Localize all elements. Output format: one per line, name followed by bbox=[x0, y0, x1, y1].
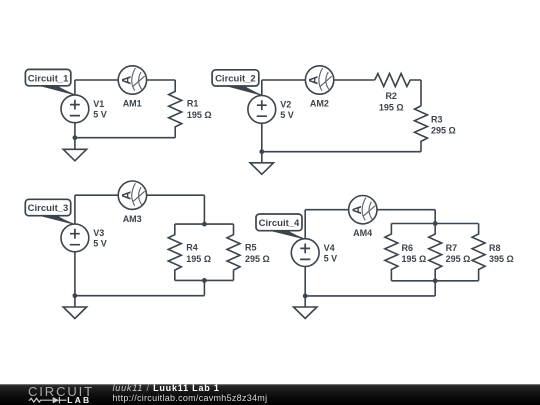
ammeter AM1 bbox=[118, 66, 146, 94]
wire circuit2 bottom bbox=[262, 151, 421, 153]
svg-text:5 V: 5 V bbox=[324, 253, 338, 263]
resistor R8 bbox=[472, 224, 485, 281]
voltage source V3 bbox=[61, 224, 89, 252]
wire circuit1 left vertical bbox=[74, 80, 76, 149]
resistor R6 bbox=[385, 224, 398, 281]
svg-text:V4: V4 bbox=[324, 243, 335, 253]
svg-text:295 Ω: 295 Ω bbox=[446, 254, 471, 264]
svg-text:295 Ω: 295 Ω bbox=[245, 254, 270, 264]
ammeter AM2 bbox=[305, 66, 333, 94]
svg-text:Circuit_3: Circuit_3 bbox=[28, 203, 69, 214]
wire circuit4 bar to bottom bbox=[434, 281, 436, 296]
svg-text:R4: R4 bbox=[186, 243, 198, 253]
resistor R5 bbox=[227, 224, 240, 280]
footer logo resistor-diode wire bbox=[29, 397, 67, 403]
svg-text:R5: R5 bbox=[245, 243, 257, 253]
svg-text:R2: R2 bbox=[385, 91, 397, 101]
svg-text:V1: V1 bbox=[93, 99, 104, 109]
wire circuit4 top bbox=[305, 209, 435, 211]
wire circuit3 bar to bottom bbox=[203, 280, 205, 295]
svg-text:AM1: AM1 bbox=[123, 99, 142, 109]
wire circuit2 top bbox=[262, 79, 375, 81]
ground circuit1 bbox=[63, 149, 86, 161]
footer logo diode triangle bbox=[53, 397, 60, 403]
wire circuit2 right vertical bbox=[420, 80, 422, 106]
svg-text:Circuit_2: Circuit_2 bbox=[215, 74, 256, 85]
svg-text:luuk11 / Luuk11 Lab 1: luuk11 / Luuk11 Lab 1 bbox=[113, 383, 220, 393]
label callout Circuit_3 bbox=[25, 199, 74, 224]
wire circuit4 top bar bbox=[391, 223, 478, 225]
junction dot circuit3 left bbox=[73, 293, 78, 298]
wire circuit3 bottom bbox=[75, 295, 205, 297]
svg-text:R7: R7 bbox=[446, 243, 458, 253]
svg-text:V3: V3 bbox=[93, 228, 104, 238]
junction dot circuit3 bottom bbox=[202, 278, 207, 283]
svg-text:395 Ω: 395 Ω bbox=[489, 254, 514, 264]
junction dot circuit4 top bbox=[433, 221, 438, 226]
svg-text:http://circuitlab.com/cavmh5z8: http://circuitlab.com/cavmh5z8z34mj bbox=[113, 393, 268, 403]
resistor R7 bbox=[429, 224, 442, 281]
voltage source V4 bbox=[291, 239, 319, 267]
svg-text:AM4: AM4 bbox=[353, 228, 372, 238]
wire circuit3 left vertical bbox=[74, 195, 76, 307]
ground circuit3 bbox=[63, 307, 86, 319]
junction dot circuit3 top bbox=[202, 222, 207, 227]
wire circuit1 bottom bbox=[75, 137, 175, 139]
junction dot circuit4 left bbox=[303, 294, 308, 299]
junction dot circuit2 bbox=[259, 149, 264, 154]
ammeter AM4 bbox=[349, 196, 377, 224]
ground circuit2 bbox=[250, 163, 273, 175]
svg-text:5 V: 5 V bbox=[93, 110, 107, 120]
svg-text:Circuit_4: Circuit_4 bbox=[259, 218, 300, 229]
svg-text:R8: R8 bbox=[489, 243, 501, 253]
resistor R1 bbox=[169, 80, 182, 138]
ammeter AM3 bbox=[118, 181, 146, 209]
svg-text:R1: R1 bbox=[187, 99, 199, 109]
wire circuit3 top bar bbox=[175, 223, 234, 225]
wire circuit1 top bbox=[75, 79, 175, 81]
voltage source V2 bbox=[248, 96, 276, 124]
wire circuit3 top bbox=[75, 194, 205, 196]
svg-text:195 Ω: 195 Ω bbox=[186, 254, 211, 264]
resistor R4 bbox=[168, 224, 181, 280]
svg-text:5 V: 5 V bbox=[93, 239, 107, 249]
resistor R2 bbox=[375, 74, 421, 87]
wire circuit4 drop to bar bbox=[434, 210, 436, 224]
wire circuit4 left vertical bbox=[304, 210, 306, 307]
svg-text:195 Ω: 195 Ω bbox=[187, 110, 212, 120]
footer bar bbox=[0, 384, 540, 405]
svg-text:5 V: 5 V bbox=[280, 110, 294, 120]
svg-text:AM2: AM2 bbox=[310, 99, 329, 109]
svg-text:AM3: AM3 bbox=[123, 214, 142, 224]
svg-text:R6: R6 bbox=[402, 243, 414, 253]
junction dot circuit1 bbox=[73, 135, 78, 140]
wire circuit4 bottom bbox=[305, 295, 435, 297]
label callout Circuit_2 bbox=[212, 70, 262, 95]
svg-text:Circuit_1: Circuit_1 bbox=[28, 73, 69, 84]
wire circuit3 bottom bar bbox=[175, 279, 234, 281]
voltage source V1 bbox=[61, 95, 89, 123]
svg-text:195 Ω: 195 Ω bbox=[379, 103, 404, 113]
svg-text:295 Ω: 295 Ω bbox=[431, 125, 456, 135]
wire circuit3 drop to bar bbox=[203, 195, 205, 224]
resistor R3 bbox=[415, 106, 428, 152]
label callout Circuit_4 bbox=[256, 214, 305, 239]
ground circuit4 bbox=[294, 307, 317, 319]
wire circuit2 left vertical bbox=[261, 80, 263, 163]
label callout Circuit_1 bbox=[25, 69, 74, 94]
wire circuit4 bottom bar bbox=[391, 280, 478, 282]
svg-text:R3: R3 bbox=[431, 115, 443, 125]
junction dot circuit4 bottom bbox=[433, 278, 438, 283]
svg-text:195 Ω: 195 Ω bbox=[402, 254, 427, 264]
svg-text:V2: V2 bbox=[280, 100, 291, 110]
svg-text:LAB: LAB bbox=[67, 395, 91, 405]
